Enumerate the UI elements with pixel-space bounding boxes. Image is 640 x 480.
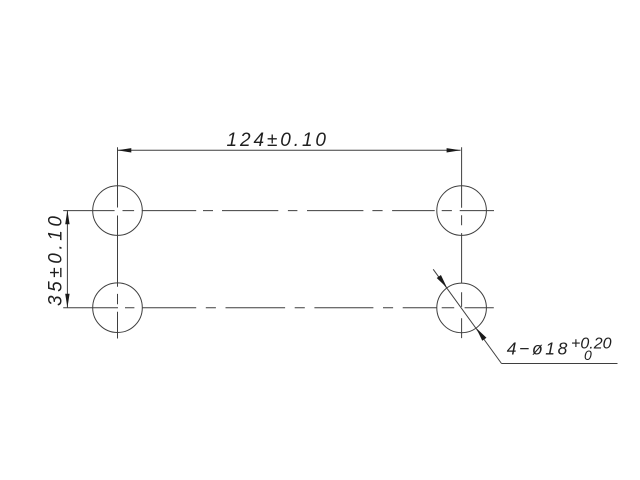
- hole circle bottom-left: [93, 283, 143, 333]
- svg-text:4−ø18: 4−ø18: [507, 339, 568, 359]
- leader shoulder: [502, 363, 618, 365]
- dimension line 35: [66, 210, 68, 308]
- centerline row top: [63, 210, 494, 212]
- arrowhead dim35 bottom: [65, 294, 69, 308]
- hole circle top-left: [93, 186, 143, 236]
- svg-text:124±0.10: 124±0.10: [227, 130, 327, 151]
- arrowhead leader lower: [476, 328, 486, 341]
- centerline row bottom: [63, 307, 494, 309]
- dimension line 124: [117, 149, 460, 151]
- leader line diagonal: [433, 269, 501, 363]
- arrowhead dim124 left: [117, 148, 131, 152]
- hole circle top-right: [437, 186, 487, 236]
- arrowhead dim124 right: [447, 148, 461, 152]
- arrowhead leader upper: [437, 275, 447, 288]
- arrowhead dim35 top: [65, 210, 69, 224]
- hole circle bottom-right: [437, 283, 487, 333]
- centerline column left: [117, 147, 119, 338]
- svg-text:0: 0: [584, 347, 592, 363]
- centerline column right: [461, 147, 463, 338]
